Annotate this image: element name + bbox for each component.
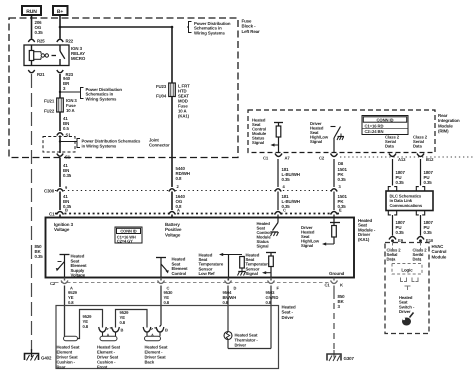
heated seat element driver seat back (145, 336, 169, 364)
inline connector pins A/B seat back (143, 326, 168, 338)
wire 9503 module to thermistor (270, 286, 272, 349)
svg-text:MICRO: MICRO (71, 56, 86, 61)
ground G307 (327, 350, 354, 361)
svg-text:0.8: 0.8 (223, 300, 229, 305)
pin R22 (57, 39, 63, 42)
heated seat element driver seat cushion front (97, 336, 121, 369)
wire 1640 OG C300 to C1 (171, 192, 173, 211)
svg-text:Data: Data (387, 257, 396, 262)
svg-text:Wiring Systems: Wiring Systems (86, 96, 118, 101)
pin C300-4 (275, 189, 281, 192)
svg-text:0.35: 0.35 (282, 177, 291, 182)
thermistor symbol (224, 332, 258, 348)
wire cushion front to seat back connector (116, 310, 148, 328)
svg-text:G402: G402 (41, 356, 52, 361)
wire B+ branch to fuse FU23 (60, 27, 172, 83)
svg-text:R22: R22 (66, 39, 74, 44)
dotted serial data row (340, 156, 474, 158)
wire R21 to ground G402 (31, 74, 33, 351)
pin C2-D (225, 281, 232, 284)
svg-text:(KA1): (KA1) (358, 237, 370, 242)
svg-text:Ground: Ground (329, 271, 345, 276)
svg-text:C1: C1 (49, 212, 55, 217)
HVAC class 2 serial data labels (387, 248, 402, 262)
svg-text:0.35: 0.35 (338, 177, 347, 182)
pin R23 (57, 70, 63, 73)
svg-text:Voltage: Voltage (54, 227, 70, 232)
RIM class 2 serial data labels (385, 135, 400, 149)
svg-text:Data: Data (385, 144, 394, 149)
pin C300-3 (331, 189, 337, 192)
pin C1-E (331, 212, 338, 215)
wire label 940 BR 3 (63, 76, 71, 91)
svg-text:C300: C300 (44, 189, 55, 194)
relay K - IGN 3 RELAY MICRO box (24, 45, 69, 66)
pin C1-A (169, 212, 176, 215)
fuse FU21 IGN 3 Fuse 10A (44, 98, 77, 114)
svg-text:Driver: Driver (235, 343, 247, 348)
joint connector box (43, 137, 75, 153)
wire 181 L-BU/WH C300 to C1 (277, 192, 279, 211)
svg-text:C2: C2 (319, 156, 325, 161)
svg-text:0.35: 0.35 (424, 230, 433, 235)
svg-text:0.5: 0.5 (63, 126, 69, 131)
wire 1807 PU DLC to E9 (392, 215, 394, 236)
wire label 206 OG 0.35 (35, 20, 44, 35)
junction to power distribution note (59, 91, 61, 93)
svg-text:Left Rear: Left Rear (242, 29, 261, 34)
svg-text:Voltage: Voltage (165, 232, 181, 237)
svg-text:Back: Back (145, 360, 155, 365)
svg-text:FU23: FU23 (156, 84, 167, 89)
svg-text:G307: G307 (344, 356, 355, 361)
svg-text:B12: B12 (426, 157, 434, 162)
fuse FU23 L FRT HTD SEAT MOD Fuse 10A (156, 83, 190, 119)
note: power distribution schematics (relay feed) (80, 88, 84, 99)
wire 9504 module to thermistor (227, 286, 229, 349)
rear integration module RIM box (248, 110, 435, 153)
DLC bottom bracket connectors (388, 211, 396, 215)
svg-text:E: E (339, 208, 342, 213)
RIM pin B12 (417, 154, 424, 157)
svg-text:A7: A7 (285, 156, 291, 161)
svg-text:0.8: 0.8 (176, 176, 182, 181)
svg-text:(RIM): (RIM) (438, 129, 449, 134)
wire RUN to relay pin R25 (31, 15, 33, 39)
module CONN ID table (115, 227, 142, 244)
pin C1-B (57, 212, 64, 215)
wire label 850 BK 0.35 (35, 244, 44, 259)
node RUN (22, 6, 41, 15)
DLC top bracket connectors (388, 187, 396, 191)
svg-text:Low Ref: Low Ref (199, 271, 216, 276)
DLC schematics box (386, 191, 433, 211)
svg-text:0.8: 0.8 (83, 324, 89, 329)
svg-text:0.8: 0.8 (120, 320, 126, 325)
node S1 bottom (57, 154, 63, 157)
svg-text:FU22: FU22 (44, 109, 55, 114)
fuse block left rear dashed box (9, 18, 238, 158)
pin C1-C (275, 212, 282, 215)
svg-text:K: K (340, 283, 343, 288)
heated seat module driver box (46, 218, 355, 278)
svg-text:Signal: Signal (257, 244, 269, 249)
wire stubs into module (59, 215, 61, 219)
svg-text:R25: R25 (37, 39, 45, 44)
module: driver heated seat high/low signal (301, 218, 340, 248)
svg-text:RUN: RUN (26, 9, 37, 15)
wire 850 BK to ground G307 (333, 286, 335, 294)
svg-text:Signal: Signal (301, 243, 313, 248)
svg-text:D: D (234, 286, 237, 291)
relay linkage (34, 51, 41, 53)
svg-text:Voltage: Voltage (71, 273, 86, 278)
svg-text:FU21: FU21 (44, 99, 55, 104)
wire R23 to fuse FU21 (59, 74, 61, 98)
svg-text:10 A: 10 A (66, 108, 75, 113)
wire 9529 YE module to cushion rear element (64, 286, 66, 337)
svg-text:CONN ID: CONN ID (120, 229, 136, 234)
module switch: heated seat element supply voltage (56, 254, 87, 282)
HVAC logic block (392, 243, 422, 291)
svg-text:0.35: 0.35 (63, 173, 72, 178)
svg-text:0.8: 0.8 (68, 300, 74, 305)
note: power distribution schematics (top) (187, 22, 192, 33)
heated seat thermistor driver loop (228, 348, 271, 350)
pin C2-C (158, 281, 165, 284)
connector C300 row (44, 189, 338, 194)
heated seat driver assembly box (56, 306, 279, 369)
svg-text:in Wiring Systems: in Wiring Systems (82, 144, 117, 149)
svg-text:Front: Front (97, 365, 108, 370)
svg-text:Communications: Communications (390, 203, 423, 208)
junction on B+ feed (59, 26, 62, 29)
svg-text:Rear: Rear (57, 365, 66, 370)
pin stubs below module bottom edge (65, 278, 335, 281)
svg-text:C: C (283, 208, 286, 213)
pin R21 (28, 70, 34, 73)
svg-text:Data: Data (413, 144, 422, 149)
svg-text:FU04: FU04 (156, 94, 167, 99)
svg-text:CONN ID: CONN ID (377, 117, 394, 122)
svg-text:Wiring Systems: Wiring Systems (194, 30, 226, 35)
module: heated seat temperature sensor signal (246, 253, 277, 282)
ground G402 (25, 349, 52, 361)
pin C2-F (268, 281, 275, 284)
wire 1807 PU B12 to DLC (420, 159, 422, 186)
wire 181 L-BU/WH RIM to C300 (277, 159, 279, 187)
svg-text:C2: C2 (50, 281, 56, 286)
HVAC heated seat switch driver (399, 295, 415, 326)
svg-text:0.8: 0.8 (266, 300, 272, 305)
module: heated seat temperature sensor low ref (199, 253, 246, 282)
svg-text:Module: Module (432, 254, 447, 259)
RIM: heated seat control module status signal driver (252, 118, 283, 154)
wire element rear to cushion front connector (78, 310, 103, 339)
svg-text:R21: R21 (37, 72, 45, 77)
wire 1501 PK RIM to C300 (333, 159, 335, 187)
module switch: heated seat element control (156, 257, 188, 282)
svg-text:0.35: 0.35 (424, 180, 433, 185)
svg-text:A: A (177, 208, 180, 213)
node B+ (53, 6, 68, 15)
svg-text:Signal: Signal (252, 140, 264, 145)
svg-text:B: B (121, 328, 124, 333)
svg-text:B: B (165, 328, 168, 333)
wire FU23 down to C300 (171, 97, 173, 188)
relay coil (31, 45, 33, 51)
svg-text:C1=16 RD: C1=16 RD (365, 124, 384, 129)
svg-text:C2=24 BN: C2=24 BN (365, 129, 384, 134)
wire FU21 to S1 (59, 112, 61, 131)
label battery positive voltage (165, 222, 182, 237)
label ignition 3 voltage (54, 222, 74, 232)
svg-text:0.35: 0.35 (396, 180, 405, 185)
relay switch (59, 45, 61, 51)
note: power distribution schematics (joint connector) (77, 139, 80, 148)
wire 1807 PU DLC to E10 (420, 215, 422, 236)
RIM: driver heated seat high/low signal switch (310, 121, 344, 153)
svg-text:Signal: Signal (246, 271, 258, 276)
svg-text:(KA1): (KA1) (178, 114, 190, 119)
svg-text:0.35: 0.35 (396, 230, 405, 235)
wire B+ down to relay pin R22 (59, 15, 61, 39)
pin R25 (28, 39, 34, 42)
pin C300-2 (169, 189, 175, 192)
svg-text:Signal: Signal (310, 139, 322, 144)
svg-text:C2=4 GY: C2=4 GY (117, 239, 133, 244)
wire 9530 YE module to seat back element (160, 286, 162, 326)
wire 1501 PK C300 to C1 (333, 192, 335, 211)
pin E9 (389, 237, 396, 240)
svg-text:B+: B+ (57, 9, 64, 15)
svg-text:B: B (65, 208, 68, 213)
wire 1807 PU A13 to DLC (392, 159, 394, 186)
module switch: heated seat control module status signal (257, 218, 279, 249)
wire S1 through joint connector (59, 136, 61, 154)
pin C300-9 (57, 189, 63, 192)
svg-text:Driver: Driver (282, 315, 294, 320)
node S1 top (57, 133, 63, 136)
RIM CONN ID table (362, 116, 408, 135)
HVAC control module dashed box (385, 243, 429, 334)
connector C2 row of heated seat module (55, 282, 330, 284)
svg-text:C1: C1 (325, 283, 331, 288)
inline connector pins A/B cushion front (99, 327, 124, 338)
connector C1 row of heated seat module (49, 212, 341, 217)
svg-text:A13: A13 (398, 157, 406, 162)
svg-text:Connector: Connector (149, 143, 170, 148)
wire 41 BN C300 to C1 (59, 192, 61, 211)
svg-text:Driver: Driver (399, 309, 411, 314)
pin C2-A (61, 281, 68, 284)
svg-text:0.35: 0.35 (35, 30, 44, 35)
RIM pin A13 (389, 154, 396, 157)
switch icon (402, 318, 411, 326)
svg-text:Control: Control (172, 271, 187, 276)
svg-text:C1: C1 (263, 156, 269, 161)
heated seat element driver seat cushion rear (57, 336, 81, 369)
svg-text:Logic: Logic (401, 268, 413, 273)
svg-text:0.35: 0.35 (35, 254, 44, 259)
svg-text:0.8: 0.8 (164, 300, 170, 305)
wire 41 BN between S1 and C300 (59, 158, 61, 187)
svg-text:D8: D8 (338, 161, 344, 166)
pin E10 (417, 237, 424, 240)
